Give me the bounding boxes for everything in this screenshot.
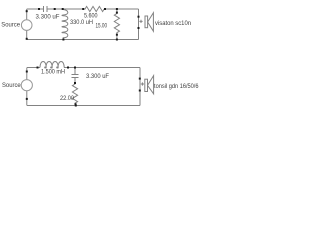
svg-text:3.300 uF: 3.300 uF [36,13,60,20]
svg-text:Source: Source [2,82,21,89]
svg-text:3.300 uF: 3.300 uF [86,73,109,80]
svg-text:22.00: 22.00 [60,95,75,102]
svg-text:15.00: 15.00 [96,22,108,29]
svg-text:tonsil gdn 16/50/6: tonsil gdn 16/50/6 [154,83,199,90]
svg-text:Source: Source [1,21,20,28]
svg-text:1.500 mH: 1.500 mH [41,68,65,75]
svg-text:visaton sc10n: visaton sc10n [155,20,192,27]
svg-text:330.0 uH: 330.0 uH [70,19,93,26]
